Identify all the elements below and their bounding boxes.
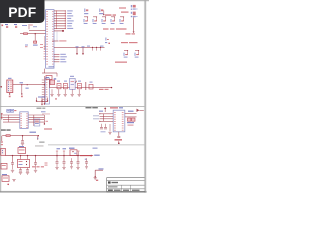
svg-text:PDF: PDF [8,5,36,20]
